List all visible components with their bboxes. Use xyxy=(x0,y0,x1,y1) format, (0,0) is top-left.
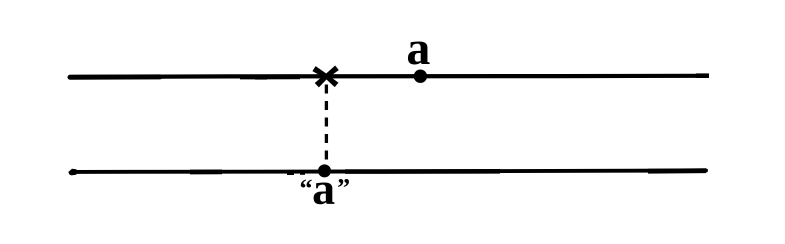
svg-text:a: a xyxy=(312,163,335,214)
svg-text:a: a xyxy=(406,22,430,75)
svg-text:”: ” xyxy=(337,174,350,203)
svg-text:“: “ xyxy=(300,174,313,203)
